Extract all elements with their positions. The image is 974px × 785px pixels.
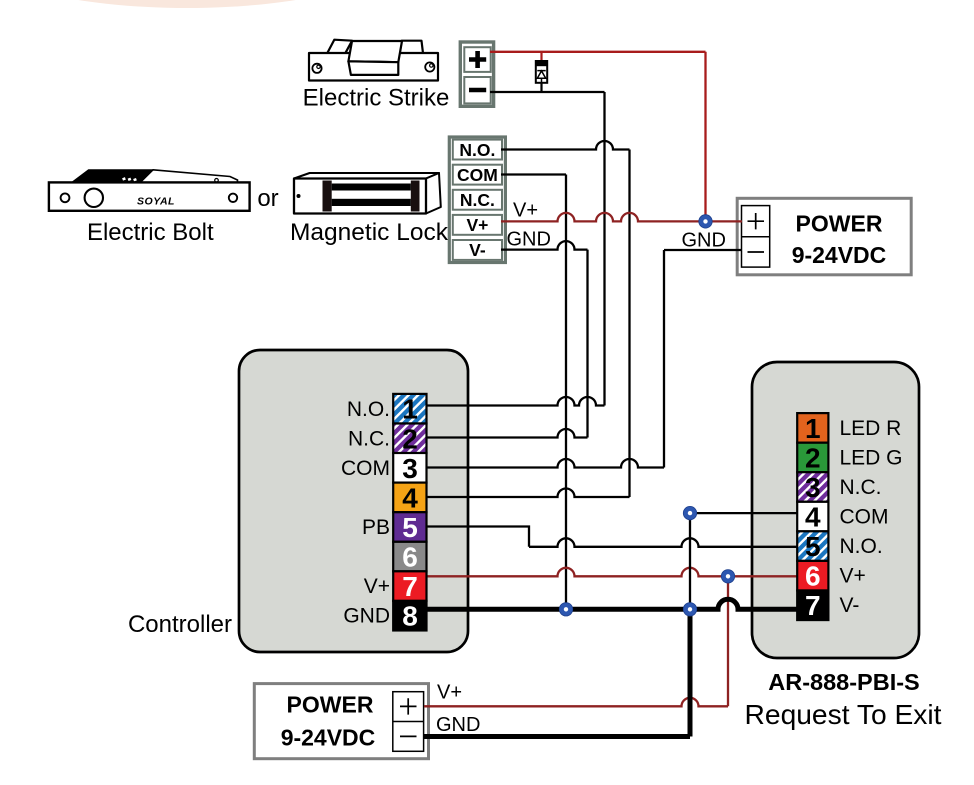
svg-text:COM: COM	[457, 165, 498, 185]
svg-text:COM: COM	[840, 506, 889, 529]
svg-text:Electric Strike: Electric Strike	[303, 85, 450, 112]
svg-text:1: 1	[402, 394, 418, 425]
svg-text:7: 7	[402, 571, 418, 602]
svg-text:Electric Bolt: Electric Bolt	[87, 219, 214, 246]
svg-text:V+: V+	[840, 565, 866, 588]
svg-text:N.O.: N.O.	[840, 535, 883, 558]
svg-text:4: 4	[805, 502, 821, 533]
svg-text:4: 4	[402, 482, 418, 513]
svg-text:POWER: POWER	[287, 691, 374, 717]
svg-text:9-24VDC: 9-24VDC	[281, 725, 376, 751]
svg-text:COM: COM	[341, 457, 390, 480]
svg-text:V+: V+	[466, 215, 488, 235]
svg-text:3: 3	[402, 453, 418, 484]
svg-text:GND: GND	[436, 714, 480, 736]
svg-text:2: 2	[402, 423, 418, 454]
svg-text:GND: GND	[343, 605, 390, 628]
svg-text:V+: V+	[513, 200, 538, 222]
svg-text:N.C.: N.C.	[460, 190, 495, 210]
svg-text:7: 7	[805, 590, 821, 621]
svg-text:POWER: POWER	[796, 210, 883, 236]
svg-text:GND: GND	[507, 228, 551, 250]
svg-text:V+: V+	[364, 575, 390, 598]
svg-text:N.C.: N.C.	[840, 476, 882, 499]
svg-text:5: 5	[402, 512, 418, 543]
svg-text:5: 5	[805, 531, 821, 562]
svg-text:3: 3	[805, 472, 821, 503]
svg-text:8: 8	[402, 601, 418, 632]
svg-text:or: or	[257, 185, 278, 212]
svg-text:PB: PB	[362, 516, 390, 539]
svg-text:Controller: Controller	[128, 611, 232, 638]
svg-text:2: 2	[805, 442, 821, 473]
svg-text:1: 1	[805, 413, 821, 444]
svg-text:V-: V-	[469, 240, 486, 260]
svg-text:V+: V+	[437, 681, 462, 703]
svg-text:SOYAL: SOYAL	[137, 196, 175, 208]
svg-text:6: 6	[402, 542, 418, 573]
svg-text:N.O.: N.O.	[347, 398, 390, 421]
svg-text:6: 6	[805, 561, 821, 592]
svg-text:LED R: LED R	[840, 417, 902, 440]
svg-text:N.O.: N.O.	[459, 140, 495, 160]
svg-text:9-24VDC: 9-24VDC	[792, 242, 887, 268]
svg-text:LED G: LED G	[840, 447, 903, 470]
svg-text:N.C.: N.C.	[348, 427, 390, 450]
svg-text:Magnetic Lock: Magnetic Lock	[290, 219, 449, 246]
svg-text:V-: V-	[840, 594, 860, 617]
svg-text:AR-888-PBI-S: AR-888-PBI-S	[768, 669, 919, 695]
svg-text:GND: GND	[682, 229, 726, 251]
svg-text:Request To Exit: Request To Exit	[745, 698, 942, 730]
